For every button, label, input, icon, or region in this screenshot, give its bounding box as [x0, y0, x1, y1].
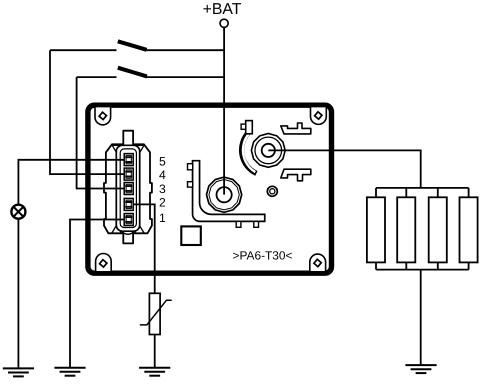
- wire switch S2 right: [146, 76, 223, 78]
- relay coil terminal T1 outer ring: [207, 177, 242, 212]
- connector J1 inner frame: [116, 145, 139, 231]
- ground G4: [405, 365, 436, 373]
- wire glow plugs to ground: [420, 270, 422, 366]
- wire S2 to pin3: [77, 77, 129, 188]
- screw pocket top-right: [311, 107, 327, 124]
- svg-text:5: 5: [159, 155, 166, 169]
- busbar arc around T2: [242, 132, 257, 173]
- strap teeth left upper: [188, 164, 193, 170]
- glow plug bus top: [376, 187, 469, 189]
- screw bottom-left: [100, 260, 107, 267]
- indicator lamp L1: [11, 205, 25, 219]
- wire +BAT to relay coil: [223, 27, 225, 194]
- battery terminal: [220, 19, 228, 27]
- ground G1: [3, 368, 34, 376]
- screw pocket top-left: [95, 107, 111, 124]
- screw top-left: [99, 112, 106, 119]
- glow plug stubs top: [376, 188, 469, 197]
- ground G2: [54, 368, 85, 376]
- thermistor R1: [149, 293, 160, 334]
- terminal tab TB1: [281, 123, 311, 134]
- screw top-right: [315, 112, 322, 119]
- wire pin2 to thermistor: [129, 204, 155, 293]
- relay module box U1: [88, 105, 332, 273]
- arc tab: [241, 124, 246, 129]
- contact terminal T2 outer ring: [251, 134, 285, 168]
- glow plug GP1: [367, 197, 385, 262]
- terminal tab TB2: [281, 169, 311, 181]
- pin 2: [124, 198, 133, 210]
- svg-text:>PA6-T30<: >PA6-T30<: [233, 249, 293, 263]
- strap teeth left lower: [188, 182, 193, 187]
- glow plug GP4: [460, 197, 478, 262]
- svg-text:1: 1: [159, 211, 166, 225]
- wire thermistor to ground: [154, 335, 156, 368]
- strap teeth bottom 2: [254, 221, 259, 227]
- ground G3: [139, 368, 170, 376]
- wire pin1 to ground: [70, 220, 129, 368]
- screw pocket bottom-right: [310, 254, 326, 271]
- pin 1: [124, 214, 133, 226]
- svg-text:2: 2: [159, 196, 166, 210]
- svg-text:+BAT: +BAT: [203, 1, 242, 18]
- switch S1 blade: [118, 41, 147, 50]
- busbar strap around T1: [193, 161, 265, 222]
- square window: [181, 226, 201, 245]
- screw pocket bottom-left: [96, 254, 112, 271]
- wire switch S1 left: [50, 49, 117, 51]
- wire switch S1 right: [146, 49, 223, 51]
- glow plug GP3: [429, 197, 447, 262]
- connector J1 corner wedges: [112, 145, 120, 152]
- glow plug stubs bottom: [376, 262, 469, 269]
- connector J1 bottom lip: [122, 231, 135, 234]
- wire pin5 to lamp: [18, 160, 129, 205]
- svg-text:3: 3: [159, 182, 166, 196]
- pin 4: [124, 168, 133, 180]
- pin 5: [124, 154, 133, 166]
- glow plug GP2: [397, 197, 415, 262]
- svg-text:4: 4: [159, 168, 166, 182]
- switch S2 blade: [118, 68, 147, 77]
- screw bottom-right: [314, 259, 321, 266]
- strap teeth bottom 1: [236, 221, 241, 227]
- wire lamp to ground: [17, 219, 19, 368]
- connector J1 body: [104, 131, 152, 244]
- pin 3: [124, 183, 133, 195]
- arc top lug: [246, 121, 253, 134]
- wire S1 to pin4: [50, 50, 129, 174]
- wire T2 to glow plugs: [268, 150, 420, 188]
- wire switch S2 left: [77, 76, 117, 78]
- glow plug bus bottom: [376, 269, 469, 271]
- rivet: [267, 186, 277, 196]
